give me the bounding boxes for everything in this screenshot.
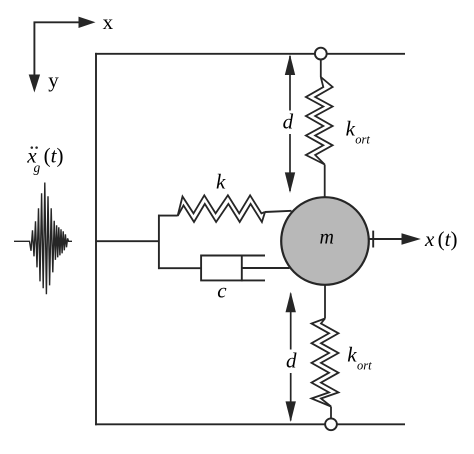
svg-text:x: x <box>103 10 114 34</box>
x(t) arrowhead <box>402 233 421 245</box>
spring k right lead <box>265 211 292 212</box>
x-axis arrowhead <box>79 17 96 28</box>
top spring upper connector <box>320 60 322 78</box>
ground acceleration label xg(t) <box>26 144 63 175</box>
damper piston plate <box>241 255 243 282</box>
svg-text:c: c <box>217 279 227 303</box>
frame (foundation) left wall <box>95 53 97 425</box>
label d (top) with white backing <box>280 111 298 135</box>
damper left rod <box>158 267 201 269</box>
top spring zigzag line A <box>306 77 325 165</box>
bottom pin circle <box>325 418 337 430</box>
top d lower arrowhead <box>285 172 295 193</box>
top spring zigzag line B <box>315 77 332 165</box>
bottom spring upper connector <box>324 284 326 319</box>
bottom d upper arrowhead <box>286 292 296 313</box>
mass m circle <box>281 197 369 285</box>
spring k zigzag line A <box>178 195 265 215</box>
svg-text:d: d <box>283 109 294 133</box>
frame top wall <box>95 53 405 55</box>
svg-text:g: g <box>34 160 41 175</box>
y-axis arrowhead <box>29 75 40 93</box>
bottom d dimension line <box>290 294 292 421</box>
top d dimension line <box>289 56 291 191</box>
svg-text:(t): (t) <box>438 227 458 251</box>
svg-text:(t): (t) <box>44 144 64 168</box>
top spring lower connector <box>324 165 326 199</box>
bottom spring lower connector <box>330 407 332 419</box>
top d upper arrowhead <box>285 54 295 75</box>
spring k left lead <box>158 215 178 217</box>
bottom spring zigzag line B <box>321 319 339 407</box>
damper right rod <box>242 267 290 269</box>
bracket vertical <box>158 215 160 269</box>
svg-text:d: d <box>286 349 297 373</box>
top pin circle <box>315 48 327 60</box>
svg-text:y: y <box>48 68 59 92</box>
label d (bottom) with white backing <box>283 350 301 374</box>
svg-text:k: k <box>216 170 226 194</box>
svg-text:x: x <box>424 227 435 251</box>
x(t) arrow line <box>369 238 404 240</box>
frame bottom wall <box>95 423 405 425</box>
spring k zigzag line B <box>178 204 265 222</box>
svg-text:k: k <box>347 343 357 367</box>
svg-text:k: k <box>346 116 356 140</box>
svg-text:m: m <box>320 226 334 248</box>
svg-text:ort: ort <box>357 358 372 372</box>
seismic waveform <box>14 183 72 295</box>
x(t) wall tick at mass <box>372 231 374 248</box>
x-axis line <box>34 22 81 89</box>
damper cylinder <box>201 256 265 281</box>
bottom d lower arrowhead <box>286 401 296 422</box>
bottom spring zigzag line A <box>312 319 332 407</box>
input wire from frame to bracket <box>96 240 159 242</box>
svg-text:ort: ort <box>355 133 370 147</box>
coordinate axes origin <box>34 22 81 89</box>
